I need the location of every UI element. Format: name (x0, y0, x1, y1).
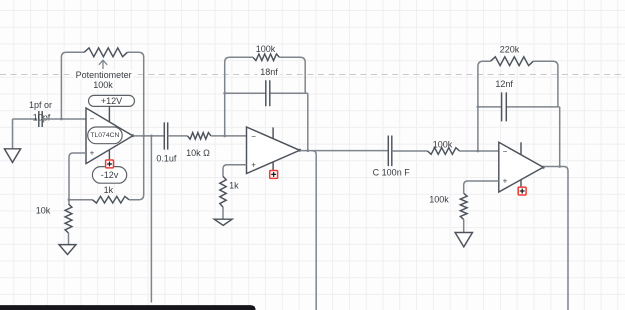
wire 12nf branch (478, 106, 560, 108)
wire R6 to ground (222, 207, 224, 219)
op-amp U1 V+ pin (108, 106, 110, 122)
label background 18nf (258, 67, 281, 77)
svg-text:10pf: 10pf (33, 113, 51, 123)
node B junction (68, 198, 71, 201)
op-amp U1 V- pin (108, 150, 110, 164)
resistor R6 1k vertical (220, 176, 226, 207)
op-amp U2 output node (298, 149, 301, 152)
label background Potentiometer (73, 70, 134, 80)
pin marker red box U3 (518, 187, 526, 195)
op-amp U2 V+ pin (272, 127, 274, 138)
svg-text:1pf or: 1pf or (29, 100, 52, 110)
op-amp U1 output node (131, 134, 134, 137)
wire R7 to U3 inverting input (460, 150, 499, 152)
svg-text:10k Ω: 10k Ω (186, 148, 210, 158)
resistor R9 100k vertical (460, 193, 467, 219)
node C junction feedback (142, 135, 145, 138)
node H junction feedback (558, 165, 561, 168)
ground GND1 lead wire (12, 119, 14, 149)
svg-text:C 100n F: C 100n F (373, 168, 411, 178)
wire U2 output (300, 150, 389, 152)
wire feedback loop stage1 left+top+right (61, 52, 143, 199)
svg-text:−: − (90, 114, 95, 123)
capacitor C3 18nf (266, 80, 270, 106)
wire U2 plus input (223, 165, 247, 177)
potentiometer R1 wiper arrow (99, 60, 107, 69)
wire feedback right leg stage3 (559, 107, 561, 167)
op-amp U3 V+ pin (520, 142, 522, 154)
capacitor C5 12nf (502, 92, 507, 121)
svg-text:−: − (503, 147, 508, 156)
svg-text:−: − (251, 132, 256, 141)
potentiometer R1 100k zigzag (84, 48, 127, 57)
op-amp U3 output node (542, 166, 545, 169)
ground GND1 (4, 149, 20, 163)
ground GND2 (59, 245, 76, 255)
svg-text:Potentiometer: Potentiometer (76, 70, 132, 80)
node E2 junction (223, 92, 226, 95)
ground GND3 (214, 219, 232, 225)
wire 1k R2 left lead (69, 199, 92, 201)
svg-text:+: + (503, 177, 508, 186)
pin marker red box U2 (270, 171, 278, 179)
pin marker red box U1 (106, 160, 114, 168)
node F junction feedback (306, 149, 309, 152)
node E junction (223, 135, 226, 138)
resistor R5 100k zigzag (253, 54, 279, 61)
svg-text:+12V: +12V (101, 96, 122, 106)
wire input to C1 (13, 118, 38, 120)
wire feedback right leg to output (307, 93, 309, 150)
wire U1 plus input (69, 153, 86, 200)
wire C1 to op-amp U1 inverting input (42, 118, 86, 120)
node G junction (477, 150, 480, 153)
wire output tap down stage2 (312, 151, 316, 310)
capacitor C2 0.1uf (164, 122, 167, 149)
svg-text:+: + (251, 161, 256, 170)
svg-text:1k: 1k (229, 181, 239, 191)
node D junction tap down (150, 135, 153, 138)
op-amp U1 triangle (86, 108, 133, 164)
supply -12v stadium (92, 167, 126, 184)
op-amp U3 V- pin (520, 180, 522, 192)
op-amp U2 V- pin (272, 162, 274, 174)
svg-text:220k: 220k (500, 45, 520, 55)
svg-text:100k: 100k (256, 44, 276, 54)
svg-text:100k: 100k (433, 139, 453, 149)
svg-text:18nf: 18nf (260, 67, 278, 77)
capacitor C4 100nF (388, 136, 392, 167)
resistor R4 10k ohm (188, 133, 212, 140)
svg-text:100k: 100k (93, 80, 113, 90)
resistor R8 220k zigzag (491, 57, 534, 66)
wire U1 output (133, 135, 164, 137)
svg-text:0.1uf: 0.1uf (156, 153, 177, 163)
wire C2 to R4 (168, 135, 188, 137)
wire R4 to U2 inverting input (211, 135, 247, 137)
wire U3 plus input (464, 181, 499, 193)
node G2 junction (477, 106, 480, 109)
op-amp U2 triangle (247, 127, 300, 174)
ground GND4 (455, 233, 472, 247)
page boundary dashed line (0, 74, 625, 76)
resistor R7 100k horizontal (428, 148, 460, 155)
svg-text:100k: 100k (429, 194, 449, 204)
svg-text:10k: 10k (36, 206, 51, 216)
wire 18nf branch (225, 92, 308, 94)
capacitor C1 1pf/10pf (39, 111, 42, 127)
wire R9 to ground (463, 219, 465, 232)
resistor R2 1k zigzag (92, 196, 129, 203)
wire R3 leads (68, 200, 71, 245)
wire U3 output (543, 167, 568, 310)
op-amp U3 triangle (499, 142, 544, 192)
wire feedback loop stage3 outer (478, 61, 558, 151)
supply +12V stadium (89, 95, 135, 106)
node A junction (60, 118, 63, 121)
window edge black bar (0, 305, 256, 310)
svg-text:1k: 1k (104, 185, 114, 195)
op-amp U1 part stadium (88, 127, 123, 144)
svg-text:12nf: 12nf (495, 79, 513, 89)
resistor R3 10k vertical (65, 204, 72, 233)
svg-text:-12v: -12v (101, 170, 119, 180)
wire output tap down stage1 (150, 136, 152, 303)
wire feedback loop stage2 outer (225, 57, 306, 136)
svg-text:TL074CN: TL074CN (90, 132, 119, 139)
wire C4 to R7 (392, 150, 428, 152)
svg-text:+: + (90, 149, 95, 158)
